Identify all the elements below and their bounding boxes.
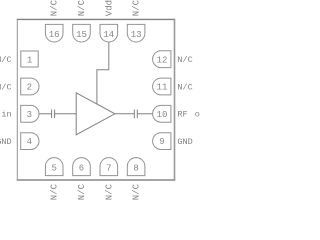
svg-text:1: 1 (27, 55, 32, 65)
svg-text:N/C: N/C (132, 0, 142, 16)
svg-text:N/C: N/C (177, 82, 192, 92)
svg-text:GND: GND (177, 137, 192, 147)
svg-text:9: 9 (159, 137, 164, 147)
svg-text:N/C: N/C (77, 0, 87, 16)
svg-text:N/C: N/C (104, 183, 114, 200)
svg-text:15: 15 (76, 30, 87, 40)
svg-text:5: 5 (51, 164, 56, 174)
svg-text:3: 3 (27, 110, 32, 120)
svg-text:N/C: N/C (50, 0, 60, 16)
svg-text:in: in (1, 110, 11, 120)
svg-text:6: 6 (79, 164, 84, 174)
svg-text:N/C: N/C (132, 183, 142, 200)
svg-text:GND: GND (0, 137, 12, 147)
svg-text:N/C: N/C (177, 55, 192, 65)
svg-text:12: 12 (157, 55, 168, 65)
svg-text:N/C: N/C (77, 183, 87, 200)
svg-text:16: 16 (49, 30, 60, 40)
svg-text:10: 10 (157, 110, 168, 120)
svg-text:8: 8 (133, 164, 138, 174)
svg-text:13: 13 (131, 30, 142, 40)
svg-text:11: 11 (157, 83, 168, 93)
svg-text:14: 14 (103, 30, 114, 40)
svg-text:Vdd: Vdd (104, 0, 114, 16)
svg-text:7: 7 (106, 164, 111, 174)
svg-text:RFout: RFout (177, 110, 200, 120)
svg-text:N/C: N/C (0, 55, 12, 65)
svg-text:4: 4 (27, 137, 32, 147)
svg-text:2: 2 (27, 83, 32, 93)
svg-text:N/C: N/C (0, 82, 12, 92)
svg-text:N/C: N/C (50, 183, 60, 200)
